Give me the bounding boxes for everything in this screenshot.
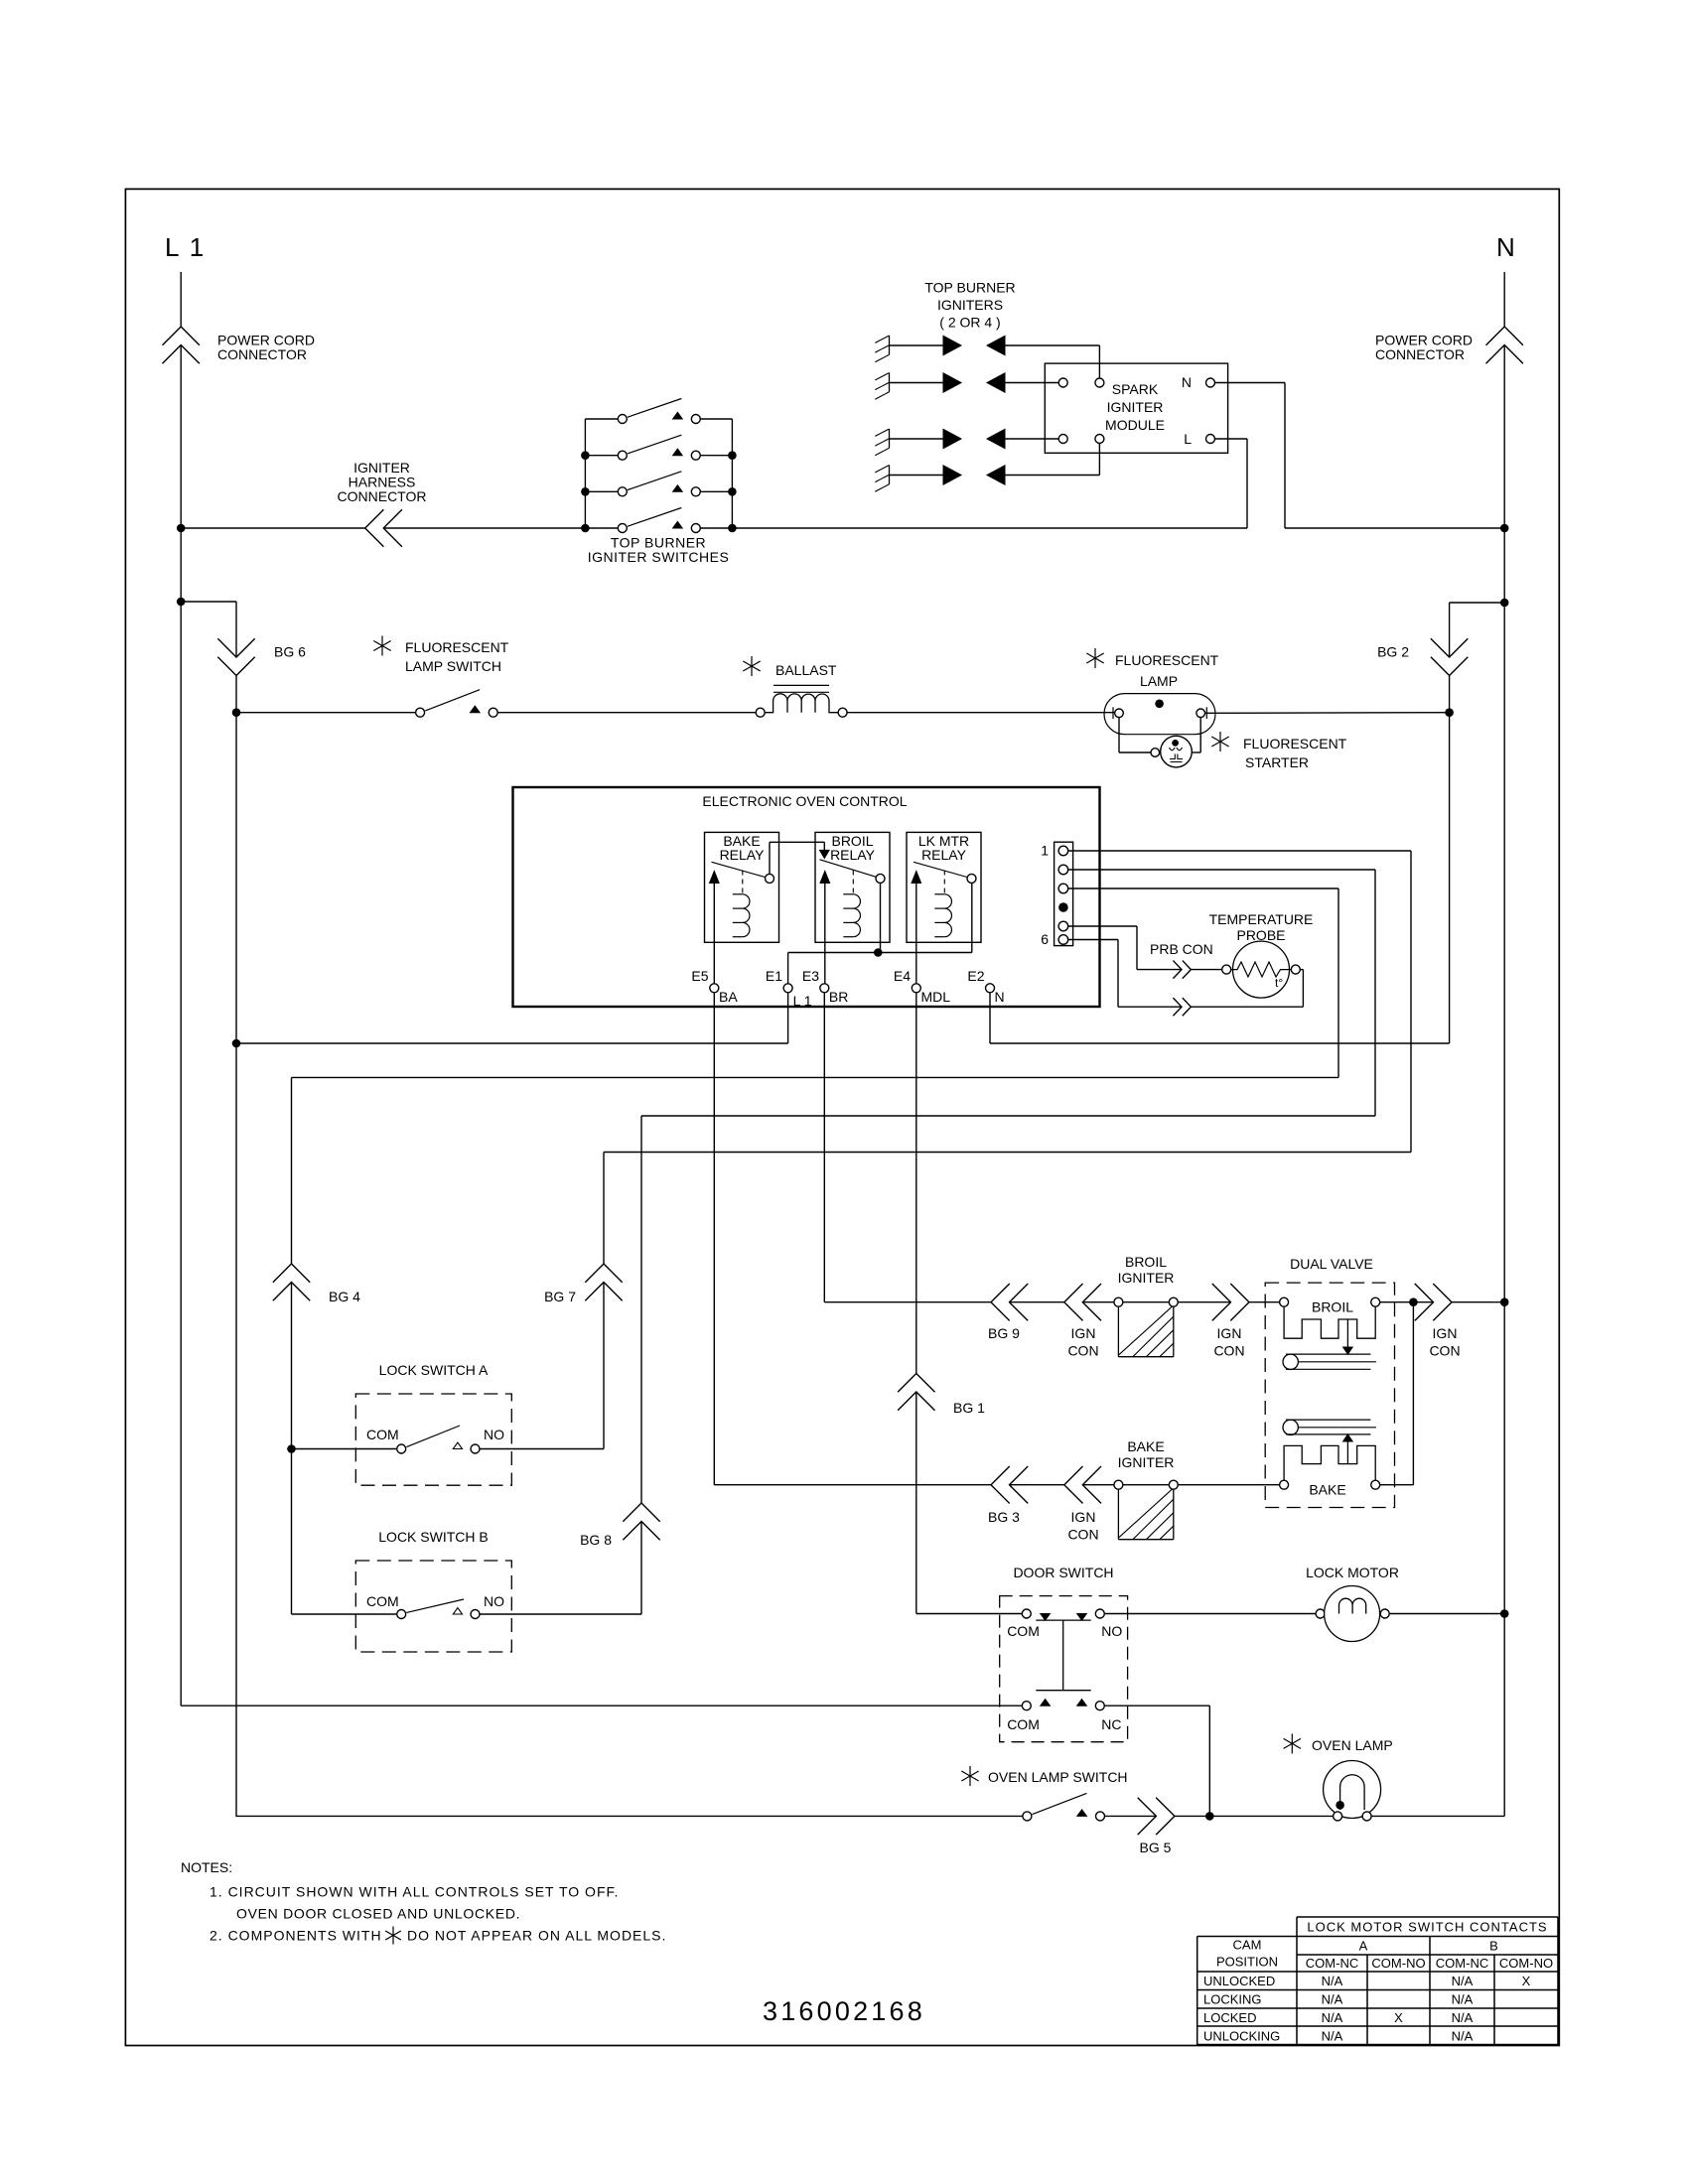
wire N rail lower — [1503, 528, 1505, 1614]
lock switch A box — [355, 1394, 511, 1485]
svg-text:E2: E2 — [967, 968, 984, 984]
label oven lamp switch — [961, 1766, 978, 1786]
igniter switch row 1 — [585, 418, 618, 420]
svg-text:COM: COM — [366, 1593, 399, 1609]
dual valve box — [1265, 1283, 1394, 1507]
top burner igniter 4 — [889, 466, 891, 484]
connector pin 2 — [1058, 865, 1068, 875]
igniter connector arrows row 2 — [943, 373, 961, 392]
junction dot oven lamp line — [1205, 1812, 1214, 1821]
connector pin 4 — [1058, 902, 1068, 912]
dual valve bake actuator arrow — [1346, 1441, 1348, 1464]
wire oven lamp switch to BG5 — [1105, 1815, 1157, 1817]
svg-text:E5: E5 — [691, 968, 708, 984]
connector BG 1 — [915, 993, 917, 1374]
svg-text:RELAY: RELAY — [921, 847, 967, 863]
spark igniter module U1 box — [1045, 363, 1227, 453]
svg-text:RELAY: RELAY — [830, 847, 876, 863]
door switch upper contacts S4a — [1022, 1609, 1031, 1618]
svg-text:BG 4: BG 4 — [329, 1289, 360, 1304]
door switch lower contacts S4b — [1022, 1702, 1031, 1710]
svg-text:N: N — [1182, 374, 1192, 390]
connector PRB CON upper — [1173, 961, 1182, 979]
connector BG 3 — [991, 1466, 1010, 1503]
connector IGN CON bake in — [1064, 1466, 1083, 1503]
wire N rail upper — [1503, 272, 1505, 327]
svg-text:NC: NC — [1101, 1716, 1121, 1732]
junction dot fluorescent line — [232, 708, 241, 717]
svg-text:DOOR SWITCH: DOOR SWITCH — [1013, 1565, 1113, 1580]
svg-text:ELECTRONIC OVEN CONTROL: ELECTRONIC OVEN CONTROL — [702, 793, 907, 809]
svg-text:BAKE: BAKE — [1127, 1438, 1164, 1454]
svg-text:BG 6: BG 6 — [274, 644, 306, 660]
svg-text:FLUORESCENT: FLUORESCENT — [405, 639, 509, 655]
dual valve broil solenoid — [1280, 1297, 1289, 1306]
svg-text:COM: COM — [1007, 1623, 1040, 1639]
wire N rail to BG2 branch — [1450, 602, 1505, 604]
wire L1 to BG6 branch — [181, 601, 236, 603]
connector pin 1 — [1058, 846, 1068, 856]
connector pin 5 — [1058, 921, 1068, 931]
svg-text:BG 1: BG 1 — [953, 1400, 985, 1416]
junction dot valve outputs — [1409, 1297, 1418, 1306]
svg-text:X: X — [1522, 1974, 1531, 1988]
svg-text:BG 5: BG 5 — [1140, 1840, 1172, 1855]
svg-text:BG 7: BG 7 — [544, 1289, 576, 1304]
connector PRB CON lower — [1173, 998, 1182, 1016]
svg-text:COM-NO: COM-NO — [1499, 1956, 1553, 1971]
dual valve broil actuator arrow — [1346, 1319, 1348, 1347]
junction dot N branch at lamp line — [1445, 708, 1454, 717]
svg-text:COM-NO: COM-NO — [1371, 1956, 1425, 1971]
wire E1 to L1 bus — [787, 993, 789, 1043]
svg-text:N/A: N/A — [1322, 2029, 1343, 2044]
wire N branch down to E2 route — [1449, 713, 1451, 1043]
wire fluorescent lamp to N branch — [1205, 712, 1450, 715]
relay K3 lock motor relay — [907, 832, 981, 942]
svg-text:IGNITERS: IGNITERS — [937, 297, 1003, 313]
svg-text:MDL: MDL — [921, 989, 951, 1005]
svg-text:N/A: N/A — [1452, 2010, 1474, 2025]
junction dot broil common — [874, 948, 883, 957]
svg-text:NOTES:: NOTES: — [181, 1859, 232, 1875]
svg-text:NO: NO — [484, 1427, 504, 1442]
pin E3 — [820, 984, 829, 993]
down arrow into broil relay — [820, 850, 830, 858]
svg-text:CON: CON — [1067, 1343, 1098, 1359]
svg-text:N/A: N/A — [1322, 1974, 1343, 1988]
wire door switch NO to lock motor — [1104, 1613, 1316, 1615]
wire bake igniter to dual valve — [1178, 1484, 1279, 1486]
connector BG 6 — [217, 638, 254, 657]
junction dot N rail branch — [1500, 599, 1509, 608]
relay K1 bake relay — [705, 832, 779, 942]
wire lock switch A NO to BG7 — [480, 1448, 604, 1450]
svg-text:FLUORESCENT: FLUORESCENT — [1115, 652, 1219, 668]
fluorescent lamp DS1 — [1104, 694, 1215, 735]
ballast inductor L2 — [756, 708, 765, 717]
relay K2 broil relay — [815, 832, 890, 942]
svg-text:PRB CON: PRB CON — [1150, 941, 1213, 957]
wire igniter row4 to module — [1005, 475, 1099, 477]
svg-text:IGN: IGN — [1217, 1325, 1242, 1341]
connector BG 9 — [991, 1284, 1010, 1320]
svg-text:LOCKING: LOCKING — [1203, 1992, 1262, 2007]
wire module N pin to N rail — [1215, 382, 1286, 384]
door switch actuator — [1036, 1619, 1090, 1621]
electronic oven control U2 box — [513, 787, 1100, 1007]
wire top bus y=532 harness to switch block — [383, 527, 585, 529]
power cord connector (L1) — [163, 327, 200, 345]
igniter connector arrows row 4 — [943, 466, 961, 484]
EOC connector strip — [1055, 842, 1073, 945]
svg-text:CON: CON — [1429, 1343, 1460, 1359]
svg-text:BG 2: BG 2 — [1377, 644, 1409, 660]
junction dot L1 mid branch — [232, 1039, 241, 1048]
svg-text:BG 8: BG 8 — [580, 1532, 612, 1548]
connector BG 8 — [623, 1503, 659, 1522]
wire E3 BR to broil igniter line — [823, 993, 825, 1302]
svg-text:IGNITER: IGNITER — [1107, 399, 1164, 415]
svg-text:BG 9: BG 9 — [988, 1325, 1020, 1341]
wire oven lamp to N rail — [1371, 1815, 1504, 1817]
dual valve bake solenoid — [1280, 1480, 1289, 1489]
junction dot N rail top bus — [1500, 524, 1509, 533]
svg-text:E4: E4 — [894, 968, 911, 984]
junction dot switch block left — [581, 524, 590, 533]
junction dot L1 branch — [177, 598, 186, 607]
svg-text:t°: t° — [1275, 976, 1283, 990]
svg-text:BAKE: BAKE — [1309, 1482, 1345, 1498]
igniter switch row 4 — [585, 527, 618, 529]
igniter connector arrows row 1 — [943, 336, 961, 354]
svg-text:N/A: N/A — [1452, 2029, 1474, 2044]
top burner igniter switches block — [584, 419, 586, 528]
svg-text:N: N — [1496, 232, 1515, 262]
wire pin5 to probe — [1068, 925, 1137, 927]
label oven lamp — [1284, 1733, 1301, 1753]
svg-text:OVEN LAMP: OVEN LAMP — [1312, 1737, 1393, 1753]
igniter switch row 2 — [585, 455, 618, 457]
junction dot switch block right — [728, 487, 737, 496]
oven lamp switch S5 — [1023, 1812, 1032, 1821]
wire MDL to door switch COM — [916, 1613, 1023, 1615]
connector IGN CON broil out — [1212, 1284, 1231, 1320]
wire pin3 to BG4 route — [1068, 887, 1338, 889]
drawing border frame — [125, 189, 1559, 2045]
svg-text:N: N — [995, 989, 1005, 1005]
svg-text:1: 1 — [1041, 843, 1049, 859]
oven lamp filament dot — [1336, 1801, 1344, 1810]
bake igniter E2 resistor — [1114, 1480, 1123, 1489]
wire bake relay common to broil relay input — [769, 842, 771, 874]
svg-text:TEMPERATURE: TEMPERATURE — [1209, 911, 1314, 927]
junction dot switch block left — [581, 451, 590, 460]
svg-text:X: X — [1394, 2010, 1403, 2025]
wire E5 BA to bake igniter line — [713, 993, 715, 1485]
fluorescent starter — [1151, 749, 1160, 757]
connector IGN CON right — [1415, 1284, 1434, 1320]
svg-text:COM: COM — [366, 1427, 399, 1442]
svg-text:COM: COM — [1007, 1716, 1040, 1732]
broil igniter E1 resistor — [1114, 1297, 1123, 1306]
lock motor switch contacts table — [1297, 1916, 1558, 1918]
pin E2 — [986, 984, 995, 993]
wire module L pin to top bus — [1215, 438, 1248, 440]
pin E1 — [783, 984, 792, 993]
svg-text:BA: BA — [719, 989, 738, 1005]
svg-text:LOCK SWITCH A: LOCK SWITCH A — [379, 1362, 489, 1378]
wire switch to ballast — [497, 712, 756, 714]
lock switch B S3 — [397, 1610, 406, 1619]
wire L1 rail upper — [180, 272, 182, 327]
svg-text:BROIL: BROIL — [1125, 1254, 1167, 1270]
svg-text:6: 6 — [1041, 931, 1049, 947]
label fluorescent starter — [1211, 732, 1228, 751]
wire BG6 branch down to L1 net — [235, 713, 237, 1043]
svg-text:IGNITER: IGNITER — [1118, 1454, 1175, 1470]
svg-text:N/A: N/A — [1322, 2010, 1343, 2025]
svg-text:BR: BR — [829, 989, 848, 1005]
connector pin 6 — [1058, 935, 1068, 945]
svg-text:RELAY: RELAY — [720, 847, 766, 863]
oven lamp DS2 — [1324, 1761, 1381, 1819]
lock switch A S2 — [397, 1444, 406, 1453]
fluorescent lamp switch S1 — [416, 708, 425, 717]
lock motor M1 — [1316, 1609, 1325, 1618]
svg-text:OVEN DOOR CLOSED AND UNLOCKED.: OVEN DOOR CLOSED AND UNLOCKED. — [236, 1906, 520, 1922]
svg-text:SPARK: SPARK — [1112, 381, 1159, 397]
connector BG 5 — [1138, 1798, 1157, 1835]
svg-text:CONNECTOR: CONNECTOR — [338, 488, 427, 504]
svg-text:IGNITER: IGNITER — [1118, 1270, 1175, 1286]
svg-text:L 1: L 1 — [793, 993, 812, 1009]
dual valve bake outlet pipe — [1283, 1420, 1298, 1434]
door switch box — [1000, 1596, 1128, 1742]
svg-text:COM-NC: COM-NC — [1306, 1956, 1358, 1971]
junction dot N rail at valve line — [1500, 1297, 1509, 1306]
wire igniter row2 to module — [1005, 382, 1058, 384]
svg-text:DO NOT APPEAR ON ALL MODELS.: DO NOT APPEAR ON ALL MODELS. — [407, 1928, 666, 1944]
svg-text:LAMP: LAMP — [1140, 673, 1178, 689]
svg-text:B: B — [1489, 1939, 1498, 1954]
svg-text:CON: CON — [1213, 1343, 1244, 1359]
connector BG 2 — [1431, 638, 1468, 657]
wire ballast to fluorescent lamp — [847, 712, 1115, 714]
svg-text:IGN: IGN — [1071, 1325, 1096, 1341]
svg-text:LOCK MOTOR: LOCK MOTOR — [1306, 1565, 1399, 1580]
junction dot lock switch A COM branch — [287, 1444, 296, 1453]
pin E4 — [912, 984, 920, 993]
connector BG 7 — [585, 1264, 622, 1283]
wire E4 MDL to door switch — [915, 1392, 917, 1614]
svg-text:E3: E3 — [802, 968, 819, 984]
svg-text:OVEN LAMP SWITCH: OVEN LAMP SWITCH — [988, 1769, 1128, 1785]
connector IGN CON broil in — [1064, 1284, 1083, 1320]
wire fluorescent lamp to starter — [1118, 718, 1120, 752]
svg-text:316002168: 316002168 — [763, 1996, 925, 2026]
wire broil relay common to E1/LK chain — [880, 883, 882, 952]
svg-text:LOCKED: LOCKED — [1203, 2010, 1256, 2025]
junction dot switch block left — [581, 487, 590, 496]
igniter switch row 3 — [585, 490, 618, 492]
svg-text:L: L — [1184, 431, 1192, 447]
label ballast — [743, 656, 760, 676]
connector BG 4 — [273, 1264, 310, 1283]
svg-text:1. CIRCUIT SHOWN WITH ALL CON: 1. CIRCUIT SHOWN WITH ALL CONTROLS SET T… — [210, 1884, 619, 1900]
svg-text:CONNECTOR: CONNECTOR — [1375, 346, 1465, 362]
junction dot switch block right — [728, 524, 737, 533]
wire L1 branch to oven lamp switch — [235, 1815, 237, 1818]
wire to fluorescent lamp switch — [236, 712, 416, 714]
wire L1 to door switch lower COM — [181, 1705, 1022, 1706]
igniter harness connector chevrons — [365, 509, 384, 546]
svg-text:CON: CON — [1067, 1527, 1098, 1543]
svg-text:LOCK MOTOR SWITCH CONTACTS: LOCK MOTOR SWITCH CONTACTS — [1307, 1920, 1547, 1935]
power cord connector (N) — [1486, 327, 1523, 345]
svg-text:NO: NO — [484, 1593, 504, 1609]
svg-text:LOCK SWITCH B: LOCK SWITCH B — [378, 1529, 488, 1545]
wire igniter row3 to module — [1005, 438, 1058, 440]
wire E1 to LK MTR common — [788, 952, 972, 954]
wire pin1 to BG7 route — [1068, 850, 1411, 852]
wire top bus y=532 switch block to L-pin drop — [732, 527, 1247, 529]
wire lock motor to N rail — [1389, 1613, 1504, 1615]
svg-text:UNLOCKED: UNLOCKED — [1203, 1974, 1275, 1988]
dual valve broil outlet pipe — [1283, 1354, 1298, 1369]
wire to lock switch A COM — [292, 1448, 397, 1450]
svg-text:2. COMPONENTS WITH: 2. COMPONENTS WITH — [210, 1928, 382, 1944]
wire igniter row1 to module — [1005, 344, 1099, 346]
svg-text:BG 3: BG 3 — [988, 1509, 1020, 1525]
wire lock switch B NO to BG8 — [480, 1613, 641, 1615]
wire broil igniter to IGN CON out — [1178, 1301, 1230, 1303]
junction dot switch block right — [728, 451, 737, 460]
svg-text:UNLOCKING: UNLOCKING — [1203, 2029, 1280, 2044]
label fluorescent lamp switch — [373, 636, 390, 656]
top burner igniter 2 — [889, 373, 891, 392]
svg-text:CONNECTOR: CONNECTOR — [217, 346, 307, 362]
junction dot L1 at top bus — [177, 524, 186, 533]
junction dot N rail at lock motor — [1500, 1609, 1509, 1618]
top burner igniter 3 — [889, 429, 891, 448]
fluorescent lamp cathode dot — [1155, 700, 1164, 709]
label fluorescent lamp — [1086, 648, 1103, 668]
spark igniter module pins — [1058, 378, 1067, 387]
svg-text:( 2 OR 4 ): ( 2 OR 4 ) — [939, 315, 1000, 331]
igniter connector arrows row 3 — [943, 429, 961, 448]
svg-text:IGN: IGN — [1433, 1325, 1458, 1341]
svg-text:A: A — [1359, 1939, 1368, 1954]
top burner igniter 1 — [889, 336, 891, 354]
lock switch B box — [355, 1561, 511, 1652]
wire door switch NC to oven lamp line — [1104, 1705, 1209, 1706]
svg-text:BROIL: BROIL — [1312, 1299, 1353, 1315]
wire pin2 to BG8 route — [1068, 869, 1375, 871]
wire bake valve to junction — [1380, 1484, 1414, 1486]
svg-text:CAM: CAM — [1233, 1938, 1262, 1953]
svg-text:COM-NC: COM-NC — [1436, 1956, 1488, 1971]
svg-text:N/A: N/A — [1322, 1992, 1343, 2007]
wire E2 to N branch — [989, 993, 991, 1043]
svg-text:IGN: IGN — [1071, 1509, 1096, 1525]
svg-text:N/A: N/A — [1452, 1992, 1474, 2007]
svg-text:TOP BURNER: TOP BURNER — [924, 280, 1015, 296]
svg-text:MODULE: MODULE — [1105, 417, 1165, 433]
svg-text:E1: E1 — [766, 968, 782, 984]
pin E5 — [710, 984, 719, 993]
svg-text:LAMP SWITCH: LAMP SWITCH — [405, 658, 501, 674]
svg-text:IGNITER SWITCHES: IGNITER SWITCHES — [588, 549, 730, 565]
svg-text:POSITION: POSITION — [1216, 1955, 1278, 1970]
connector pin 3 — [1058, 884, 1068, 893]
wire pin6 to probe return — [1068, 939, 1118, 941]
wire broil valve to IGN CON right — [1380, 1301, 1434, 1303]
svg-text:DUAL VALVE: DUAL VALVE — [1290, 1256, 1373, 1272]
svg-text:L 1: L 1 — [165, 232, 206, 262]
wire to lock switch B COM — [292, 1613, 397, 1615]
svg-text:NO: NO — [1101, 1623, 1122, 1639]
svg-text:STARTER: STARTER — [1245, 754, 1309, 770]
svg-text:N/A: N/A — [1452, 1974, 1474, 1988]
wire top bus y=532 left of harness connector — [181, 527, 365, 529]
svg-text:FLUORESCENT: FLUORESCENT — [1243, 736, 1347, 751]
wire L1 rail lower — [180, 528, 182, 1706]
svg-text:BALLAST: BALLAST — [775, 662, 837, 678]
